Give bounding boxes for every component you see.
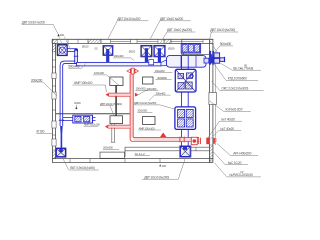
label AMP 200x100 xyxy=(138,126,161,130)
leader R4 xyxy=(210,101,251,112)
blue branch duct lower-left with grilles xyxy=(63,118,96,121)
wall right hatch block xyxy=(209,145,213,161)
svg-text:300х300: 300х300 xyxy=(137,109,147,113)
blue riser through grille boxes xyxy=(182,56,189,146)
svg-text:400х800: 400х800 xyxy=(157,76,167,80)
grille box 2 xyxy=(175,107,196,129)
svg-text:АС 4-1-2: АС 4-1-2 xyxy=(135,152,145,156)
svg-text:ДВТ 10х10 (№200): ДВТ 10х10 (№200) xyxy=(144,175,169,179)
svg-text:ДВТ 10х10 (№Д02): ДВТ 10х10 (№Д02) xyxy=(100,102,122,106)
label 100x300 xyxy=(136,87,149,91)
unit fan top-left xyxy=(57,44,68,56)
leader R7 xyxy=(217,144,258,156)
leader R9 xyxy=(215,163,261,177)
svg-text:№С 10-20: №С 10-20 xyxy=(228,161,242,165)
blue wall flange bars xyxy=(209,51,211,65)
label B5 number200 xyxy=(159,164,166,168)
thin duct below box 2 xyxy=(111,124,115,143)
blue duct stub from fan unit xyxy=(67,49,76,52)
label 500x400 top-right xyxy=(211,42,233,57)
svg-text:ВЕ.Оке.77и4,В: ВЕ.Оке.77и4,В xyxy=(233,66,254,70)
svg-text:Ø 160: Ø 160 xyxy=(36,130,44,134)
wall left xyxy=(52,39,55,162)
red riser fill xyxy=(130,74,133,138)
svg-text:ДВТ 10х10 (№200): ДВТ 10х10 (№200) xyxy=(167,28,192,32)
equipment box 2 xyxy=(110,116,123,124)
wall bottom xyxy=(52,159,213,163)
svg-text:ОКС 2,0х2,0 (№300): ОКС 2,0х2,0 (№300) xyxy=(221,87,248,91)
equipment box 4 xyxy=(143,117,155,125)
leader T1 xyxy=(22,21,71,50)
red damper bars on duct xyxy=(180,137,184,143)
svg-text:№Т 40х20: №Т 40х20 xyxy=(221,117,235,121)
svg-text:500х400: 500х400 xyxy=(68,65,79,69)
blue outside intake boxes xyxy=(214,53,225,63)
svg-text:300х400: 300х400 xyxy=(156,91,166,95)
red riser xyxy=(130,74,199,142)
label B4 xyxy=(135,152,150,156)
leader T4 xyxy=(160,28,196,44)
red flange double bar xyxy=(199,138,201,144)
leader T5 xyxy=(209,28,238,52)
svg-text:Ø100: Ø100 xyxy=(129,50,136,54)
leader R6 xyxy=(210,127,242,140)
red stub outside wall xyxy=(213,138,217,144)
label B3 200x300 xyxy=(103,146,119,150)
label AMP lower-left xyxy=(82,118,100,127)
equipment box 3 xyxy=(143,77,154,84)
diffuser A xyxy=(103,45,113,55)
leader R8 xyxy=(214,152,249,165)
blue duct: left branch elbow and left riser xyxy=(60,61,77,126)
svg-text:200х300: 200х300 xyxy=(147,87,157,91)
svg-text:№Т 40х20: №Т 40х20 xyxy=(220,127,234,131)
blue large duct section xyxy=(167,56,207,68)
blue main duct horizontal xyxy=(77,62,162,66)
svg-text:200х300: 200х300 xyxy=(103,146,113,150)
leader R5 xyxy=(208,117,242,137)
leader L1 xyxy=(31,78,57,96)
blue junction dot xyxy=(74,48,78,52)
label 200x300 mid xyxy=(136,69,172,100)
label AMP mid-left xyxy=(73,71,120,92)
blue duct flange tick on left riser xyxy=(59,119,64,121)
leader R2 xyxy=(214,64,258,81)
grille pair lower-left xyxy=(73,115,93,123)
svg-text:ДВТ 10х10 №200: ДВТ 10х10 №200 xyxy=(117,17,140,21)
label number100 lower-left xyxy=(74,101,81,109)
diffuser B xyxy=(141,45,153,57)
svg-text:100х200: 100х200 xyxy=(155,69,165,73)
leader R3 xyxy=(212,81,264,91)
diffuser bottom xyxy=(180,146,191,157)
svg-text:АМР 100х100: АМР 100х100 xyxy=(84,123,101,127)
svg-text:Ø200: Ø200 xyxy=(168,47,175,51)
red supply symbol top xyxy=(126,68,139,74)
label 500x400 left xyxy=(68,64,85,69)
svg-text:200х200: 200х200 xyxy=(31,78,42,82)
label 100x400 xyxy=(113,54,134,60)
blue main duct fitting xyxy=(149,60,154,65)
svg-text:АМР 100х100: АМР 100х100 xyxy=(74,81,93,85)
blue fan unit in room xyxy=(181,44,200,53)
interior step box xyxy=(100,152,125,158)
leader B1 xyxy=(62,157,99,170)
interior partition wall xyxy=(56,113,130,115)
drop from diffuser A xyxy=(106,49,109,62)
svg-text:АМР 200х100: АМР 200х100 xyxy=(139,126,156,130)
drop from diffuser C xyxy=(158,48,161,62)
label DVO 250 xyxy=(134,101,174,109)
svg-text:100х400: 100х400 xyxy=(114,54,124,58)
red wall block xyxy=(206,138,209,145)
red branch lower with arrow xyxy=(105,125,130,129)
wall right xyxy=(209,39,215,162)
interior wall bottom band xyxy=(125,147,209,157)
unit VKT bottom-left xyxy=(56,148,67,157)
wall right window box xyxy=(209,93,217,105)
label DVT D02 xyxy=(100,102,122,115)
svg-text:ВКТ 0,9х0,8 (№90): ВКТ 0,9х0,8 (№90) xyxy=(70,166,95,170)
svg-text:ДВТ 10х10 №200: ДВТ 10х10 №200 xyxy=(160,17,183,21)
blue duct reducer on left riser xyxy=(60,126,63,148)
svg-text:100х100: 100х100 xyxy=(94,71,104,75)
red branch mid with arrows xyxy=(106,93,139,97)
svg-text:100х300: 100х300 xyxy=(136,87,146,91)
diffuser C xyxy=(154,45,166,57)
svg-text:ДВТ 10х10 (№200): ДВТ 10х10 (№200) xyxy=(210,28,235,32)
svg-text:Ø100: Ø100 xyxy=(82,44,89,48)
svg-text:200: 200 xyxy=(162,164,167,168)
svg-text:КТД 1000х600: КТД 1000х600 xyxy=(228,77,247,81)
interior room top-right xyxy=(182,39,213,54)
red box with junction dot xyxy=(191,137,197,144)
wall left hatch blocks xyxy=(52,43,55,52)
svg-text:500х400: 500х400 xyxy=(220,42,231,46)
leader T2 xyxy=(108,17,148,39)
blue duct transition xyxy=(161,58,170,66)
leader T3 xyxy=(150,17,190,39)
leader L2 xyxy=(36,130,53,134)
wall top hatch blocks xyxy=(52,39,58,43)
red bottom run fill xyxy=(134,138,198,141)
label 300x300 xyxy=(137,109,152,113)
drop from diffuser B xyxy=(145,48,148,62)
svg-text:ДВО 10х10 (№250): ДВО 10х10 (№250) xyxy=(134,101,156,105)
wall top xyxy=(52,39,213,43)
svg-text:Ø100: Ø100 xyxy=(74,101,81,105)
red damper triangle xyxy=(160,133,167,138)
equipment stem xyxy=(115,85,117,115)
svg-text:ДВТ 10х10 №200: ДВТ 10х10 №200 xyxy=(22,21,45,25)
grille box 1 xyxy=(175,69,196,92)
equipment box 1 xyxy=(110,77,123,85)
wall left lintel window boxes xyxy=(52,73,56,146)
svg-text:№РИС0-20/15,90: №РИС0-20/15,90 xyxy=(229,173,253,177)
svg-text:Ю.Рис0-20/У: Ю.Рис0-20/У xyxy=(226,108,244,112)
leader B2 xyxy=(142,158,185,180)
svg-text:АРН 400х200: АРН 400х200 xyxy=(233,152,251,156)
svg-text:200: 200 xyxy=(60,33,65,37)
blue riser from junction to main duct xyxy=(75,50,78,63)
leader R1 xyxy=(221,63,261,70)
